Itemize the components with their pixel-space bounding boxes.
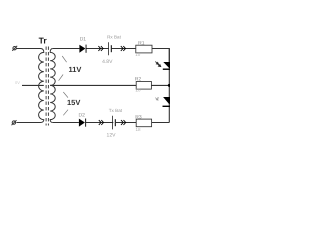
svg-text:R1: R1 [138,41,145,47]
leader slash below 11V [59,75,64,81]
leader slash below 15V [63,110,68,116]
junction dot [168,84,171,87]
wire bottom-left to primary [16,122,40,124]
wire battery to R3 [115,122,136,124]
wire D2 to Tx battery [86,122,113,124]
transformer Tr secondary winding top half (11V) [50,49,55,86]
wire R1 to bus corner [152,49,169,62]
svg-text:D2: D2 [78,112,85,118]
connector >> top 2 [121,46,126,51]
svg-text:R2: R2 [135,76,142,82]
wire battery to R1 [111,48,136,50]
svg-text:12V: 12V [107,133,117,139]
svg-text:11V: 11V [69,65,82,74]
battery Rx Bat [109,42,112,55]
leader slash above 15V [63,92,68,98]
svg-text:Rx Bat: Rx Bat [107,34,122,39]
transformer Tr primary winding [39,49,44,123]
svg-text:15V: 15V [67,98,80,107]
connector >> bottom 1 [99,120,104,125]
connector >> bottom 2 [121,120,126,125]
LED L1 arrows [155,62,161,67]
mid rail: secondary tap to R2 [50,84,136,86]
svg-text:D1: D1 [80,37,87,43]
LED L1 [163,62,176,70]
LED L2 [163,97,176,107]
wire D1 to Rx battery [86,48,109,50]
svg-text:18: 18 [135,127,141,132]
diode D1 [79,45,86,53]
wire R3 to bus [152,122,170,124]
svg-text:Tr: Tr [39,36,48,46]
resistor R2 [136,82,151,90]
wire R2 to bus [151,84,169,86]
wire top-left to primary [16,48,40,50]
battery Tx Bat [113,116,116,130]
svg-text:10: 10 [135,52,141,57]
top rail: secondary to D1 [53,48,80,50]
connector >> top 1 [98,46,103,51]
diode D2 [79,119,86,127]
bottom rail: secondary to D2 [53,122,79,124]
resistor R3 [136,119,151,127]
svg-text:20: 20 [135,88,141,93]
svg-text:0V: 0V [15,80,20,85]
svg-text:Tx Bat: Tx Bat [109,108,123,113]
svg-text:4.8V: 4.8V [102,59,113,65]
transformer core [46,47,48,126]
resistor R1 [136,45,152,53]
terminal top-left [12,46,17,51]
primary center tap stub [22,84,44,86]
LED L2 arrows [155,97,159,100]
terminal bottom-left [12,120,17,125]
leader slash above 11V [62,56,66,62]
transformer Tr secondary winding bottom half (15V) [50,85,55,122]
LED bus vertical [168,49,170,123]
svg-text:R3: R3 [135,114,142,120]
